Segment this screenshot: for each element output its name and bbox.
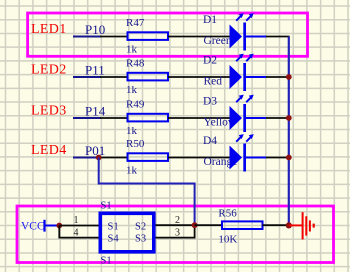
svg-text:4: 4 [74,228,79,239]
svg-text:D3: D3 [203,96,217,108]
svg-text:1k: 1k [126,43,138,55]
svg-text:LED1: LED1 [31,22,67,37]
svg-text:R56: R56 [218,208,237,220]
svg-text:R49: R49 [126,98,145,110]
svg-text:1: 1 [74,215,79,226]
svg-text:1k: 1k [126,125,138,137]
svg-text:Green: Green [204,35,232,47]
svg-text:1k: 1k [126,84,138,96]
svg-text:3: 3 [175,227,180,238]
svg-text:Red: Red [204,76,223,88]
svg-text:P11: P11 [85,63,105,78]
svg-text:S4: S4 [108,234,120,245]
svg-text:D2: D2 [203,55,217,67]
svg-text:S3: S3 [135,234,146,245]
svg-text:D1: D1 [203,14,217,26]
svg-text:1k: 1k [126,164,138,176]
svg-text:10K: 10K [218,233,237,245]
svg-text:R47: R47 [126,17,145,29]
svg-text:R48: R48 [126,57,145,69]
svg-text:LED4: LED4 [31,143,67,158]
svg-text:P14: P14 [85,104,106,119]
svg-text:LED2: LED2 [31,63,67,78]
svg-text:D4: D4 [203,135,217,147]
svg-text:S2: S2 [135,221,146,232]
svg-text:LED3: LED3 [31,104,67,119]
svg-text:S1: S1 [101,201,112,212]
svg-text:VCC: VCC [21,221,45,233]
svg-text:R50: R50 [126,138,145,150]
svg-text:P10: P10 [85,22,105,37]
svg-text:2: 2 [175,215,180,226]
svg-text:P01: P01 [85,143,105,158]
svg-text:S1: S1 [108,221,119,232]
svg-text:S1: S1 [101,256,112,267]
